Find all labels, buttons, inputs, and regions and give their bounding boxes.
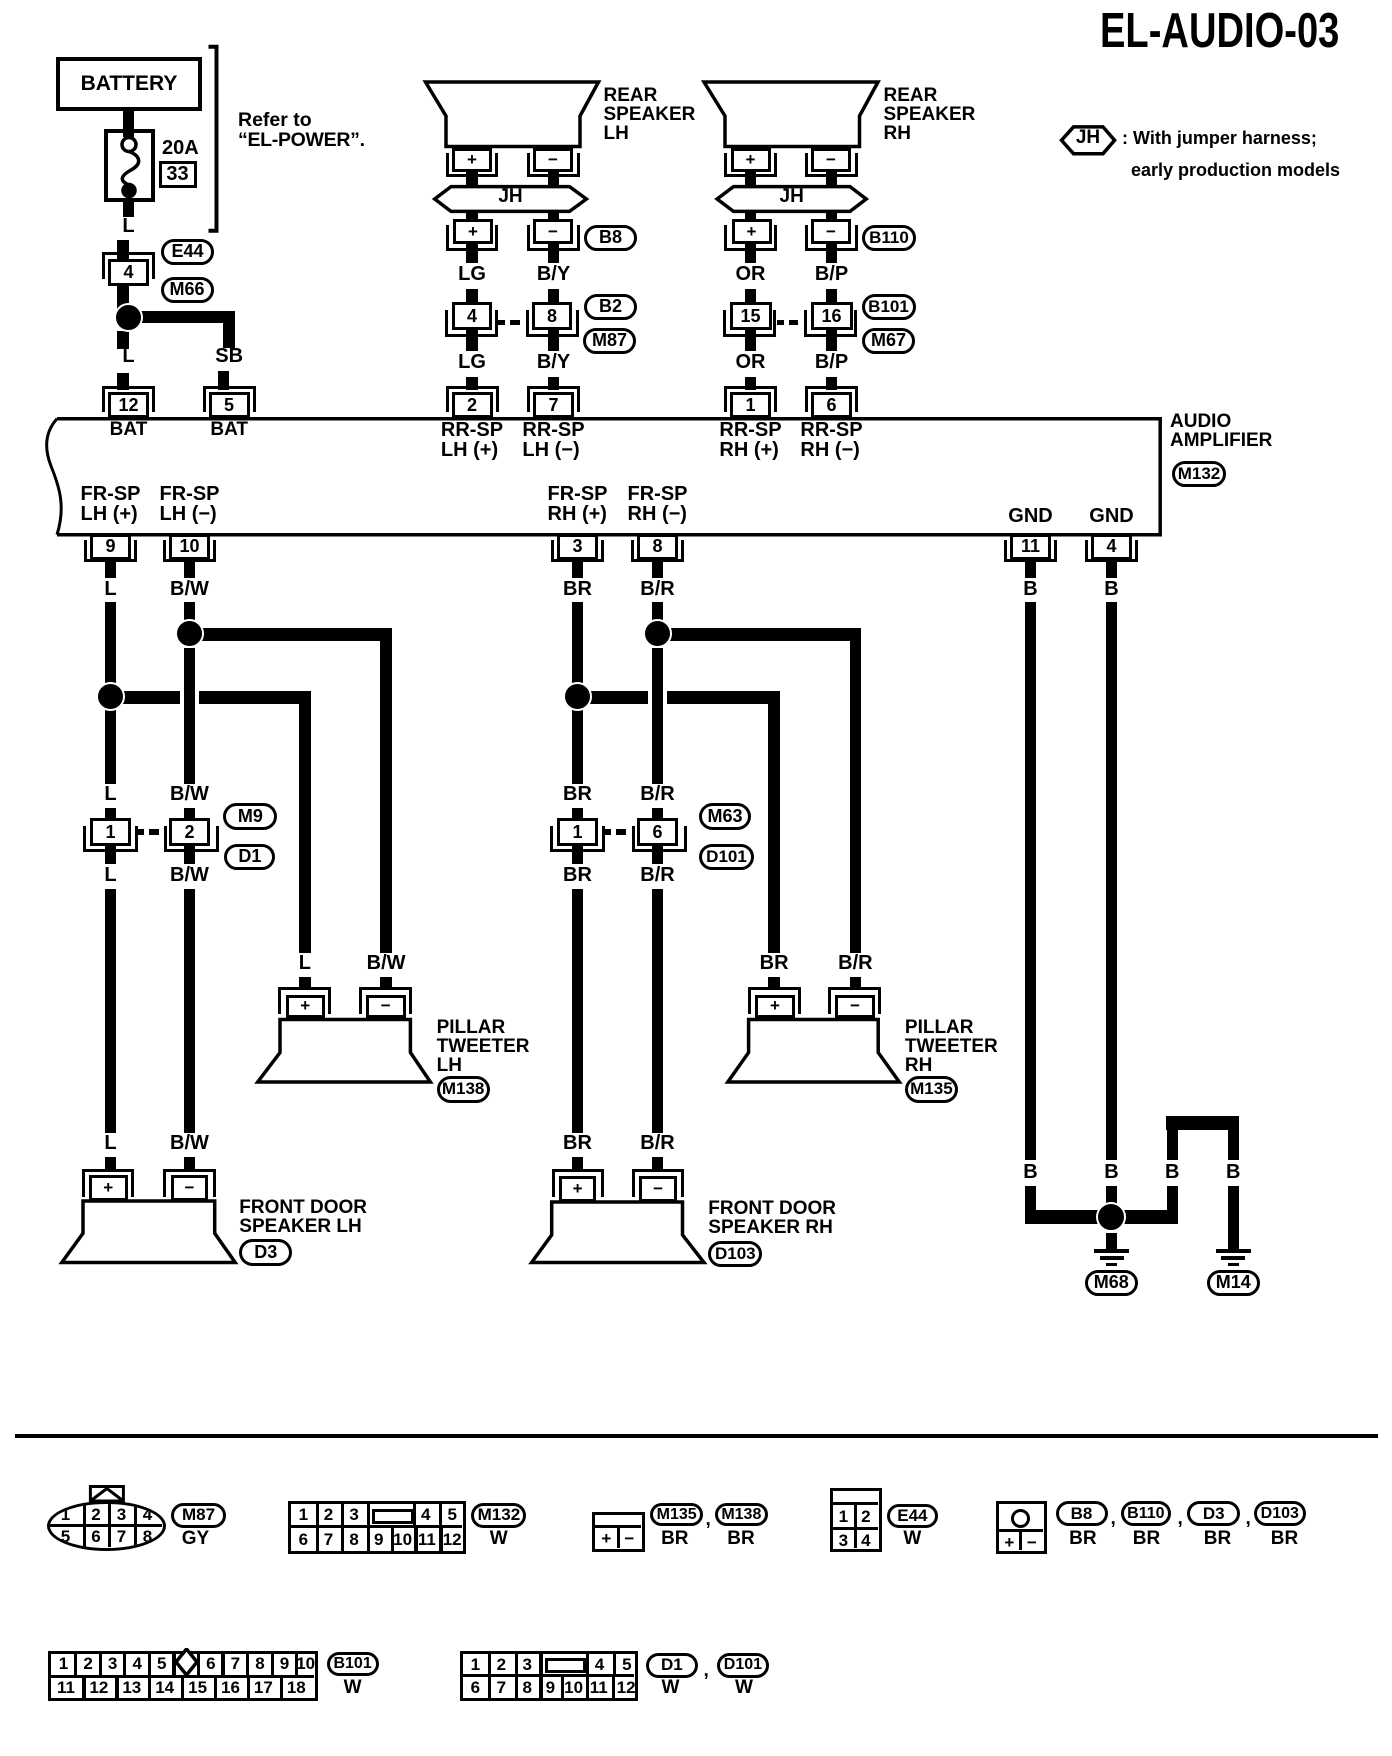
- label wire color L: [299, 953, 311, 973]
- label wire color LG: [458, 352, 486, 372]
- connector face B8/B110/D3/D103: [996, 1501, 1046, 1554]
- label color BR: [727, 1529, 754, 1548]
- label wire color B/W: [170, 1133, 209, 1153]
- label color W: [344, 1678, 362, 1697]
- amp pin 11 bracket: [1004, 540, 1057, 562]
- connector label B2: [584, 294, 637, 320]
- wire B/W below connector 2: [184, 846, 196, 864]
- branch L to tweeter +: [105, 691, 311, 704]
- wire B4 to ground: [1228, 1186, 1240, 1250]
- connector label E44 legend: [887, 1504, 938, 1528]
- label terminal RR-SP LH (-): [522, 420, 584, 460]
- amp pin 12: [108, 392, 149, 418]
- wire JH to + RH: [745, 210, 757, 220]
- connector label M9: [223, 803, 277, 830]
- amp pin 12 bracket: [102, 386, 155, 412]
- inline connector pin 15: [730, 302, 772, 330]
- label wire color B/P: [815, 352, 848, 372]
- amp pin 1 bracket: [724, 386, 777, 412]
- rear speaker LH terminal +: [452, 148, 492, 172]
- amp pin 10 bracket: [163, 540, 216, 562]
- connector face M87: [47, 1501, 166, 1551]
- connector label M67: [862, 328, 915, 354]
- label color W: [903, 1529, 921, 1548]
- inline connector pin 1 RH: [557, 818, 598, 846]
- label terminal FR-SP RH (+): [548, 484, 608, 524]
- junction B/R junction: [643, 619, 672, 648]
- label wire color OR: [736, 264, 766, 284]
- fuse number 33: [159, 161, 197, 188]
- label wire color B/W: [170, 784, 209, 804]
- label wire color B/R: [838, 953, 872, 973]
- amp pin 6: [811, 392, 852, 418]
- label wire color BR: [563, 865, 592, 885]
- label terminal GND: [1089, 506, 1133, 526]
- wire junction to ground M68: [1106, 1233, 1118, 1250]
- refer-to bracket: [209, 47, 217, 231]
- ground bus: [1025, 1210, 1179, 1224]
- connector label M14: [1207, 1270, 1261, 1296]
- wire crossing B/R over branch: [648, 690, 652, 705]
- link bar B3-B4: [1166, 1116, 1239, 1130]
- rear speaker LH terminal + bracket: [446, 153, 499, 177]
- wire B2 to junction: [1106, 1186, 1118, 1212]
- tweeter RH terminal &minus;: [835, 995, 875, 1019]
- label JH LH: [498, 187, 522, 206]
- wire L into E44: [117, 240, 129, 259]
- label terminal BAT: [110, 420, 148, 439]
- label color GY: [182, 1529, 209, 1548]
- label wire color B/R: [640, 865, 674, 885]
- door RH + bracket: [552, 1169, 604, 1197]
- connector label M135: [905, 1076, 958, 1103]
- wire LG into connector 4: [466, 289, 478, 302]
- wire B/R below connector: [652, 846, 664, 864]
- inline connector pin 6 RH bracket: [632, 826, 687, 852]
- tweeter LH terminal +: [286, 995, 326, 1019]
- label color BR: [1204, 1529, 1231, 1548]
- amp pin 10: [169, 534, 210, 561]
- door LH - bracket: [163, 1169, 216, 1197]
- wire B/P into connector 16: [826, 289, 838, 302]
- pillar tweeter LH symbol: [258, 1020, 431, 1083]
- amp pin 6 bracket: [805, 386, 858, 412]
- title EL-AUDIO-03: [1100, 3, 1339, 59]
- label wire color L: [122, 346, 134, 366]
- label AUDIO AMPLIFIER: [1170, 412, 1272, 450]
- label wire color B: [1165, 1162, 1179, 1182]
- battery: [56, 57, 202, 111]
- wire B3 down: [1167, 1117, 1179, 1160]
- label FRONT DOOR SPEAKER LH: [239, 1198, 367, 1236]
- wire tweeter + stub: [299, 977, 311, 990]
- wire branch to BAT pin 5: [128, 311, 235, 324]
- rear speaker LH terminal &minus;: [533, 148, 573, 172]
- amp pin 7 bracket: [527, 386, 580, 412]
- amp pin 8: [637, 534, 678, 561]
- wire crossing B/W over branch: [180, 690, 184, 705]
- wire L long down: [105, 889, 117, 1133]
- wire LG below connector: [466, 330, 478, 351]
- label wire color B/P: [815, 264, 848, 284]
- label wire color OR: [736, 352, 766, 372]
- wire B4 down: [1228, 1117, 1240, 1160]
- wire wire below pin 4: [1106, 560, 1118, 578]
- rear speaker RH terminal &minus;: [811, 148, 851, 172]
- wire speaker RH + to JH: [745, 171, 757, 188]
- front door speaker LH symbol: [62, 1201, 235, 1263]
- inline connector pin 8: [532, 302, 572, 330]
- label terminal RR-SP LH (+): [441, 420, 503, 460]
- wire B pin11 long down: [1025, 602, 1037, 1160]
- wire tweeter LH - branch down: [380, 628, 392, 953]
- connector label E44: [161, 239, 214, 265]
- connector B110 &minus;: [811, 219, 851, 244]
- label terminal FR-SP RH (&minus;): [628, 484, 688, 524]
- connector label M135 legend: [650, 1503, 703, 1527]
- label wire color BR: [760, 953, 789, 973]
- wire B/W main down: [184, 602, 196, 622]
- branch B/W to tweeter -: [184, 628, 393, 641]
- audio amplifier box outline: [57, 419, 1160, 535]
- amp pin 4 bracket: [1085, 540, 1138, 562]
- junction BR junction: [563, 682, 592, 711]
- wire speaker RH - to JH: [826, 171, 838, 188]
- rear speaker RH terminal +: [731, 148, 771, 172]
- label wire color B/Y: [537, 264, 570, 284]
- label wire color B/R: [640, 579, 674, 599]
- wire SB into pin 5: [218, 371, 230, 390]
- wire tweeter - stub: [380, 977, 392, 990]
- label wire color L: [122, 216, 134, 236]
- inline connector pin 4: [452, 302, 492, 330]
- comma: [1246, 1509, 1251, 1528]
- connector face E44: [830, 1488, 882, 1552]
- label wire color B/Y: [537, 352, 570, 372]
- label color BR: [1069, 1529, 1096, 1548]
- wire below fuse: [123, 202, 135, 217]
- ground symbol M68: [1094, 1249, 1129, 1253]
- amp pin 8 bracket: [631, 540, 684, 562]
- connector label B8 legend: [1056, 1501, 1108, 1526]
- connector label B110 legend: [1121, 1501, 1172, 1526]
- wire L into connector 1: [105, 808, 117, 820]
- inline connector pin 1: [90, 818, 131, 846]
- connector B8 - bracket: [527, 225, 580, 251]
- wire LG above label: [466, 244, 478, 263]
- door RH terminal &minus;: [639, 1176, 677, 1202]
- door LH terminal +: [89, 1175, 128, 1201]
- amp pin 5 bracket: [203, 386, 256, 412]
- label wire color L: [104, 1133, 116, 1153]
- label wire color LG: [458, 264, 486, 284]
- wire speaker LH - to JH: [548, 171, 560, 188]
- wire wire below pin 10: [184, 560, 196, 578]
- wire tweeter LH + branch down: [299, 691, 311, 953]
- connector label D3: [239, 1239, 292, 1266]
- inline connector pin 4 bracket: [445, 310, 498, 337]
- connector label M138 legend: [715, 1503, 768, 1527]
- label wire color B: [1023, 1162, 1037, 1182]
- connector label D101: [699, 844, 754, 870]
- comma: [1111, 1509, 1116, 1528]
- wire B pin4 long down: [1106, 602, 1118, 1160]
- label wire color L: [104, 579, 116, 599]
- wire BR below connector: [572, 846, 584, 864]
- wire JH to +: [466, 210, 478, 220]
- wire wire below pin 11: [1025, 560, 1037, 578]
- amp pin 2 bracket: [446, 386, 499, 412]
- connector label D1: [224, 844, 275, 870]
- rear speaker RH terminal - bracket: [805, 153, 858, 177]
- amp pin 5: [209, 392, 250, 418]
- connector label M138: [437, 1076, 490, 1103]
- junction ground junction: [1096, 1202, 1126, 1232]
- wire B/W into connector 2: [184, 808, 196, 820]
- branch BR to tweeter RH +: [572, 691, 781, 704]
- label wire color B: [1104, 579, 1118, 599]
- label wire color BR: [563, 784, 592, 804]
- tweeter RH terminal +: [755, 995, 795, 1019]
- wire JH to - RH: [826, 210, 838, 220]
- wire B/R into connector 6: [652, 808, 664, 820]
- junction battery feed junction: [114, 303, 143, 332]
- label color BR: [1271, 1529, 1298, 1548]
- wire B/W into door speaker: [184, 1157, 196, 1170]
- door RH terminal +: [559, 1176, 597, 1202]
- label JH RH: [780, 187, 804, 206]
- connector label B101 legend: [327, 1652, 379, 1677]
- wire B/Y into pin 7: [548, 377, 560, 390]
- wire BR main down: [572, 602, 584, 692]
- inline connector pin 2: [169, 818, 210, 846]
- wire B/P into pin 6: [826, 377, 838, 390]
- connector label D103: [708, 1241, 762, 1267]
- label wire color B/W: [170, 579, 209, 599]
- label wire color B/R: [640, 1133, 674, 1153]
- label color W: [662, 1678, 680, 1697]
- legend separator line: [15, 1434, 1378, 1438]
- wire B/R main down: [652, 602, 664, 622]
- wire B/P above label: [826, 244, 838, 263]
- label wire color BR: [563, 579, 592, 599]
- connector label B101: [862, 294, 916, 320]
- amp pin 1: [730, 392, 771, 418]
- comma: [1178, 1509, 1183, 1528]
- rear speaker RH symbol: [704, 82, 878, 147]
- amp pin 11: [1010, 534, 1051, 561]
- connector face M132: [288, 1501, 466, 1554]
- label terminal BAT: [210, 420, 248, 439]
- wire L below connector 1: [105, 846, 117, 864]
- door RH - bracket: [632, 1169, 684, 1197]
- wire OR into connector 15: [745, 289, 757, 302]
- tweeter LH terminal &minus;: [366, 995, 406, 1019]
- amp pin 9 bracket: [84, 540, 137, 562]
- wire wire below pin 9: [105, 560, 117, 578]
- label terminal FR-SP LH (&minus;): [160, 484, 220, 524]
- label PILLAR TWEETER LH: [437, 1018, 530, 1075]
- wire wire below pin 3: [572, 560, 584, 578]
- JH legend symbol: [1062, 127, 1115, 154]
- dashed link B2/M87 link: [498, 320, 505, 326]
- fuse 20A (fusible link): [104, 129, 155, 202]
- dashed link B101/M67 link: [777, 320, 784, 326]
- inline connector pin 15 bracket: [723, 310, 776, 337]
- note refer to: [238, 111, 312, 131]
- wire OR into pin 1: [745, 377, 757, 390]
- connector B8 + bracket: [446, 225, 499, 251]
- wire BR long down: [572, 889, 584, 1133]
- rear speaker LH terminal - bracket: [527, 153, 580, 177]
- wire B/R long down: [652, 889, 664, 1133]
- connector label M132 legend: [471, 1503, 526, 1528]
- label wire color B: [1023, 579, 1037, 599]
- connector M87 key tab: [90, 1487, 123, 1502]
- label wire color L: [104, 865, 116, 885]
- wire BR into connector 1: [572, 808, 584, 820]
- ground symbol M14: [1216, 1249, 1251, 1253]
- label terminal FR-SP LH (+): [81, 484, 141, 524]
- note EL-POWER: [238, 131, 365, 151]
- amp pin 3 bracket: [551, 540, 604, 562]
- legend with jumper harness: [1122, 129, 1317, 147]
- tweeter RH + bracket: [748, 987, 801, 1014]
- connector face B101: [48, 1651, 318, 1701]
- label wire color B: [1226, 1162, 1240, 1182]
- connector label M132: [1172, 461, 1226, 487]
- connector face D1/D101: [460, 1651, 637, 1701]
- inline connector pin 16: [811, 302, 853, 330]
- comma: [704, 1661, 709, 1680]
- legend early production: [1131, 161, 1340, 179]
- label wire color BR: [563, 1133, 592, 1153]
- tweeter LH - bracket: [359, 987, 412, 1014]
- wire OR below connector: [745, 330, 757, 351]
- inline connector pin 1 bracket: [83, 826, 138, 852]
- dashed link M9/D1 link: [137, 829, 144, 835]
- connector label B110: [862, 225, 916, 251]
- label FRONT DOOR SPEAKER RH: [708, 1199, 836, 1237]
- connector B8 &minus;: [533, 219, 573, 244]
- connector label M66: [161, 277, 214, 303]
- comma: [706, 1510, 711, 1529]
- amp pin 2: [452, 392, 493, 418]
- connector label D3 legend: [1187, 1501, 1240, 1526]
- wire L below E44: [117, 286, 129, 310]
- label terminal RR-SP RH (+): [719, 420, 781, 460]
- amp pin 9: [90, 534, 131, 561]
- wire speaker LH + to JH: [466, 171, 478, 188]
- rear speaker RH terminal + bracket: [724, 153, 777, 177]
- wire tweeter RH + stub: [768, 977, 780, 990]
- junction L junction: [96, 682, 125, 711]
- wire B/W cont: [184, 648, 196, 784]
- wire SB branch down: [223, 311, 235, 349]
- amp pin 3: [557, 534, 598, 561]
- label REAR SPEAKER RH: [884, 86, 976, 143]
- connector label D103 legend: [1254, 1501, 1306, 1526]
- amp pin 4: [1091, 534, 1132, 561]
- fuse symbol: [122, 138, 139, 197]
- wire wire below pin 8: [652, 560, 664, 578]
- connector E44/M66 pin 4: [108, 259, 149, 287]
- wire JH to -: [548, 210, 560, 220]
- wire tweeter RH + branch down: [768, 691, 780, 953]
- rear speaker LH symbol: [426, 82, 599, 147]
- label color BR: [661, 1529, 688, 1548]
- amp pin 7: [533, 392, 574, 418]
- label color W: [735, 1678, 753, 1697]
- junction B/W junction: [175, 619, 204, 648]
- label wire color B/W: [170, 865, 209, 885]
- wire B/W long down: [184, 889, 196, 1133]
- dashed link M63/D101 link: [604, 829, 611, 835]
- connector B110 +: [732, 219, 772, 244]
- connector face M135/M138: [592, 1512, 645, 1552]
- wire BR cont: [572, 703, 584, 784]
- label wire color B: [1104, 1162, 1118, 1182]
- label color BR: [1133, 1529, 1160, 1548]
- connector B110 + bracket: [724, 225, 777, 251]
- wire OR above label: [745, 244, 757, 263]
- connector label M87 legend: [171, 1503, 226, 1528]
- label REAR SPEAKER LH: [604, 86, 696, 143]
- inline connector pin 6 RH: [637, 818, 678, 846]
- JH jumper harness symbol RH: [717, 187, 866, 212]
- tweeter LH + bracket: [278, 987, 331, 1014]
- connector label M87: [583, 328, 636, 354]
- wire L below junction: [117, 331, 129, 349]
- connector label D101 legend: [717, 1653, 769, 1678]
- wire B/P below connector: [826, 330, 838, 351]
- tweeter RH - bracket: [828, 987, 881, 1014]
- label wire color L: [104, 784, 116, 804]
- inline connector pin 16 bracket: [804, 310, 857, 337]
- wire tweeter RH - stub: [850, 977, 862, 990]
- wire B/R into door speaker: [652, 1157, 664, 1170]
- wire B1 to bus: [1025, 1186, 1037, 1224]
- pillar tweeter RH symbol: [728, 1020, 900, 1083]
- label PILLAR TWEETER RH: [905, 1018, 998, 1075]
- label wire color SB: [215, 346, 243, 366]
- inline connector pin 8 bracket: [526, 310, 579, 337]
- label JH legend text: [1076, 128, 1100, 147]
- connector label D1 legend: [646, 1653, 698, 1678]
- connector label M68: [1085, 1270, 1139, 1296]
- wire B/Y above label: [548, 244, 560, 263]
- wire L cont: [105, 703, 117, 784]
- label terminal GND: [1008, 506, 1052, 526]
- JH jumper harness symbol LH: [435, 187, 587, 212]
- wire L main down: [105, 602, 117, 692]
- label wire color B/W: [367, 953, 406, 973]
- connector B110 - bracket: [805, 225, 858, 251]
- wire B/Y into connector 8: [548, 289, 560, 302]
- fuse rating 20A: [162, 138, 199, 158]
- connector label B8: [584, 225, 637, 251]
- wire L into pin 12: [117, 373, 129, 390]
- branch B/R to tweeter RH -: [652, 628, 862, 641]
- wire BR into door speaker: [572, 1157, 584, 1170]
- wire LG into pin 2: [466, 377, 478, 390]
- label terminal RR-SP RH (-): [800, 420, 862, 460]
- wire L into door speaker: [105, 1157, 117, 1170]
- connector label M63: [699, 803, 751, 830]
- door LH + bracket: [82, 1169, 134, 1197]
- inline connector pin 2 bracket: [164, 826, 219, 852]
- wire B/R cont: [652, 648, 664, 784]
